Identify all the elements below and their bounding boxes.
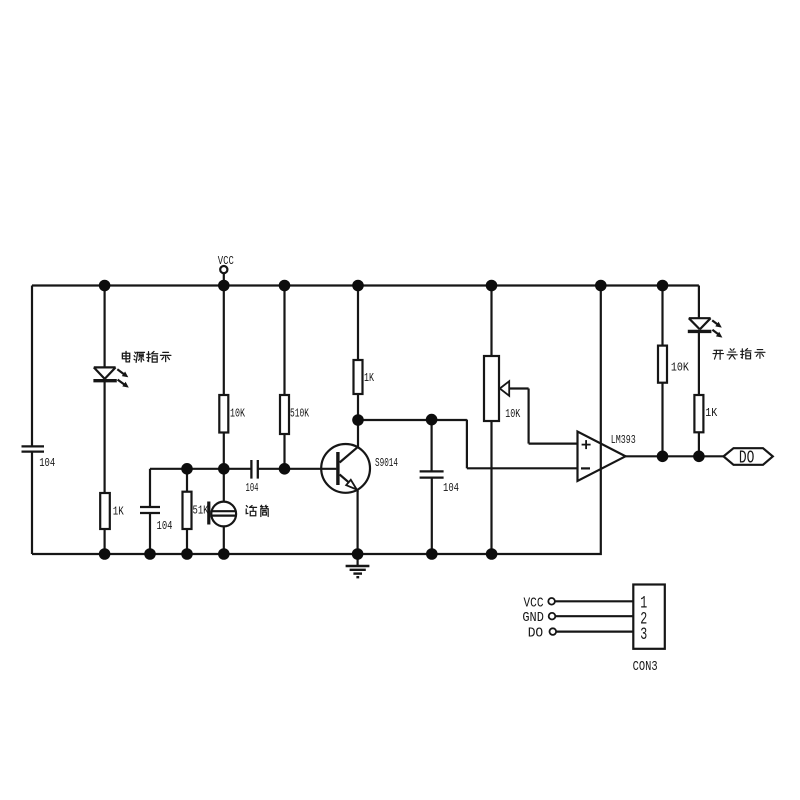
svg-text:GND: GND <box>522 610 544 626</box>
svg-text:3: 3 <box>640 625 647 645</box>
svg-text:1K: 1K <box>705 406 718 420</box>
svg-text:10K: 10K <box>671 360 690 374</box>
svg-text:104: 104 <box>246 481 259 495</box>
svg-text:51K: 51K <box>193 504 210 518</box>
svg-text:VCC: VCC <box>218 254 234 268</box>
svg-text:S9014: S9014 <box>375 456 398 470</box>
svg-text:VCC: VCC <box>524 596 544 612</box>
svg-text:104: 104 <box>443 481 459 495</box>
svg-text:CON3: CON3 <box>633 659 658 675</box>
svg-text:104: 104 <box>39 456 55 470</box>
svg-text:LM393: LM393 <box>611 433 636 447</box>
svg-text:510K: 510K <box>290 407 310 421</box>
svg-text:104: 104 <box>157 519 173 533</box>
svg-text:DO: DO <box>739 449 755 469</box>
svg-text:10K: 10K <box>230 407 246 421</box>
svg-text:1K: 1K <box>364 371 375 385</box>
svg-text:DO: DO <box>528 625 544 641</box>
svg-text:1K: 1K <box>113 505 125 519</box>
svg-text:10K: 10K <box>505 407 521 421</box>
